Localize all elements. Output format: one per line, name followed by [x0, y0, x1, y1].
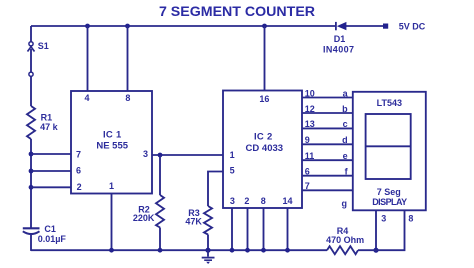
wire: left rail to IC1 pin 7	[31, 153, 71, 155]
5V DC supply terminal (filled square)	[383, 24, 388, 29]
svg-text:3: 3	[230, 196, 235, 206]
svg-text:DISPLAY: DISPLAY	[372, 197, 407, 207]
junction node: pin 1 at ground rail	[109, 248, 114, 253]
wire: left rail from R1 down to C1	[30, 139, 32, 228]
resistor R4	[327, 246, 358, 254]
svg-text:c: c	[343, 119, 348, 129]
junction node: pin16 riser on top rail	[262, 24, 267, 29]
wire: R4 to display pins node	[358, 249, 376, 251]
svg-text:47 k: 47 k	[40, 122, 59, 132]
ground symbol	[202, 250, 215, 264]
wire: left rail from top rail to switch	[30, 26, 32, 42]
svg-text:NE 555: NE 555	[96, 141, 128, 152]
svg-text:13: 13	[305, 119, 315, 129]
junction node: IC2 pin 14 at rail	[285, 248, 290, 253]
wire: IC2 pin 14 to ground rail	[287, 208, 289, 250]
IC U2 (IC 2 CD 4033) box	[223, 91, 302, 209]
svg-text:d: d	[342, 135, 348, 145]
svg-text:2: 2	[77, 182, 82, 192]
junction node: R3 at ground rail	[205, 248, 210, 253]
svg-text:LT543: LT543	[377, 98, 402, 108]
wire: segment e (IC2 pin 11 to display)	[302, 159, 353, 161]
svg-text:5: 5	[230, 166, 235, 176]
wire: pin 16 riser	[264, 26, 266, 91]
svg-text:11: 11	[305, 151, 315, 161]
resistor R2	[156, 195, 164, 228]
svg-text:6: 6	[76, 166, 81, 176]
svg-text:IC 1: IC 1	[103, 129, 122, 140]
wire: display pin 8 down and across	[376, 210, 405, 250]
wire: left rail from switch to R1	[30, 76, 32, 106]
svg-text:12: 12	[305, 104, 315, 114]
wire: R3 bottom lead	[207, 235, 209, 251]
svg-text:7: 7	[76, 149, 81, 159]
svg-text:1: 1	[109, 181, 114, 191]
svg-text:IC 2: IC 2	[254, 132, 273, 143]
svg-text:4: 4	[84, 93, 89, 103]
wire: top power rail (diode to supply terminal)	[346, 25, 384, 27]
capacitor C1	[23, 228, 40, 234]
svg-text:16: 16	[259, 94, 269, 104]
svg-text:0.01µF: 0.01µF	[38, 234, 67, 244]
junction node: pin 7 tap	[29, 152, 34, 157]
wire: pin 8 riser	[127, 26, 129, 91]
wire: segment c (IC2 pin 13 to display)	[302, 127, 353, 129]
junction node: R2 at ground rail	[158, 248, 163, 253]
svg-text:6: 6	[305, 167, 310, 177]
svg-text:10: 10	[305, 88, 315, 98]
junction node: pin 2 tap	[29, 185, 34, 190]
svg-text:g: g	[342, 199, 348, 209]
junction node: pin 6 tap	[29, 169, 34, 174]
junction node: IC2 pin 8 at rail	[261, 248, 266, 253]
svg-text:8: 8	[125, 93, 130, 103]
wire: left rail to IC1 pin 2	[31, 186, 71, 188]
wire: IC1 pin 3 to IC2 pin 1	[152, 154, 223, 156]
svg-text:e: e	[343, 151, 348, 161]
diode D1 (cathode bar + triangle pointing left)	[336, 22, 347, 30]
svg-text:470 Ohm: 470 Ohm	[326, 235, 364, 245]
svg-text:220K: 220K	[133, 213, 155, 223]
junction node: pin8 riser on top rail	[125, 24, 130, 29]
wire: segment a (IC2 pin 10 to display)	[302, 97, 353, 99]
wire: segment d (IC2 pin 9 to display)	[302, 143, 353, 145]
wire: segment f (IC2 pin 6 to display)	[302, 175, 353, 177]
wire: left rail below C1 to ground rail	[30, 235, 32, 251]
svg-text:b: b	[342, 104, 348, 114]
wire: left rail to IC1 pin 6	[31, 170, 71, 172]
junction node: IC2 pin 3 at rail	[230, 248, 235, 253]
wire: pin 4 riser	[87, 26, 89, 91]
svg-text:9: 9	[305, 135, 310, 145]
junction node: IC2 pin 2 at rail	[245, 248, 250, 253]
svg-text:7 SEGMENT COUNTER: 7 SEGMENT COUNTER	[159, 4, 315, 20]
svg-text:47K: 47K	[185, 216, 202, 226]
resistor R1	[27, 106, 35, 139]
display DS1 (LT543 7 Seg DISPLAY) box	[353, 92, 426, 211]
svg-text:3: 3	[143, 149, 148, 159]
junction node: pin4 riser on top rail	[85, 24, 90, 29]
svg-text:2: 2	[244, 196, 249, 206]
wire: display pin 3 to R4 node	[375, 210, 377, 250]
switch S1	[28, 42, 35, 77]
svg-text:D1: D1	[334, 34, 346, 44]
wire: IC2 pin 2 to ground rail	[247, 208, 249, 250]
svg-text:8: 8	[408, 213, 413, 223]
wire: R2 bottom lead	[159, 228, 161, 251]
svg-text:14: 14	[283, 196, 293, 206]
wire: bottom ground rail	[31, 249, 327, 251]
wire: segment b (IC2 pin 12 to display)	[302, 112, 353, 114]
svg-text:7 Seg: 7 Seg	[377, 187, 401, 197]
wire: IC1 pin 1 to ground rail	[111, 194, 113, 251]
svg-text:8: 8	[261, 196, 266, 206]
svg-text:S1: S1	[38, 41, 49, 51]
svg-text:3: 3	[381, 213, 386, 223]
IC U1 (IC 1 NE 555) box	[71, 91, 152, 194]
wire: IC2 pin 3 to ground rail	[231, 208, 233, 250]
junction node: display pin 3 at R4 net	[373, 248, 378, 253]
svg-text:IN4007: IN4007	[323, 45, 354, 55]
svg-text:5V DC: 5V DC	[399, 21, 426, 31]
wire: IC2 pin 8 to ground rail	[263, 208, 265, 250]
svg-text:C1: C1	[44, 224, 56, 234]
resistor R3	[204, 206, 212, 235]
svg-text:1: 1	[230, 150, 235, 160]
wire: top power rail (left of diode D1)	[31, 25, 336, 27]
svg-text:CD 4033: CD 4033	[246, 143, 284, 154]
wire: segment g (IC2 pin 7 to display)	[302, 189, 353, 191]
7-segment digit glyph	[366, 114, 411, 179]
wire: IC2 pin 5 to R3	[208, 172, 223, 207]
junction node: R2 tap on pin3 wire	[158, 153, 163, 158]
svg-text:7: 7	[305, 181, 310, 191]
wire: R2 top lead	[159, 155, 161, 195]
